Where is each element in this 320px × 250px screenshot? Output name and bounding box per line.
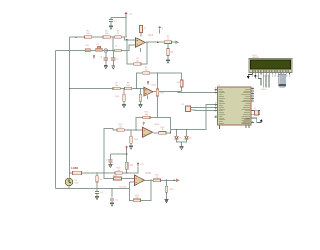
svg-text:U1:A: U1:A — [148, 34, 154, 37]
svg-text:1k: 1k — [167, 39, 169, 41]
svg-text:U1:B: U1:B — [151, 85, 156, 87]
svg-text:LM016L: LM016L — [252, 57, 259, 59]
svg-text:1k: 1k — [161, 129, 163, 131]
svg-text:10k: 10k — [145, 69, 148, 71]
svg-text:X1: X1 — [254, 108, 256, 110]
svg-text:LOAD: LOAD — [71, 167, 78, 170]
svg-text:1k: 1k — [117, 33, 119, 35]
svg-text:C6 100n: C6 100n — [119, 187, 127, 189]
svg-text:10k: 10k — [177, 82, 180, 84]
svg-text:10k: 10k — [135, 197, 138, 199]
svg-text:A B C: A B C — [262, 88, 268, 91]
svg-text:U2:A: U2:A — [154, 123, 159, 126]
svg-text:12V: 12V — [75, 183, 79, 185]
svg-text:1k: 1k — [144, 28, 146, 30]
svg-text:1k: 1k — [115, 45, 117, 47]
svg-text:10k: 10k — [105, 33, 108, 35]
svg-text:1k: 1k — [156, 177, 158, 179]
svg-text:10k: 10k — [145, 114, 148, 116]
svg-text:10k: 10k — [115, 85, 118, 87]
svg-text:10k: 10k — [136, 60, 139, 62]
svg-text:10k: 10k — [126, 85, 129, 87]
svg-text:10k: 10k — [117, 170, 120, 172]
svg-text:10k: 10k — [86, 45, 89, 47]
svg-text:10k: 10k — [86, 33, 89, 35]
svg-text:U1: U1 — [218, 85, 220, 87]
svg-text:U2:B: U2:B — [146, 173, 152, 175]
svg-text:10k: 10k — [119, 126, 122, 128]
